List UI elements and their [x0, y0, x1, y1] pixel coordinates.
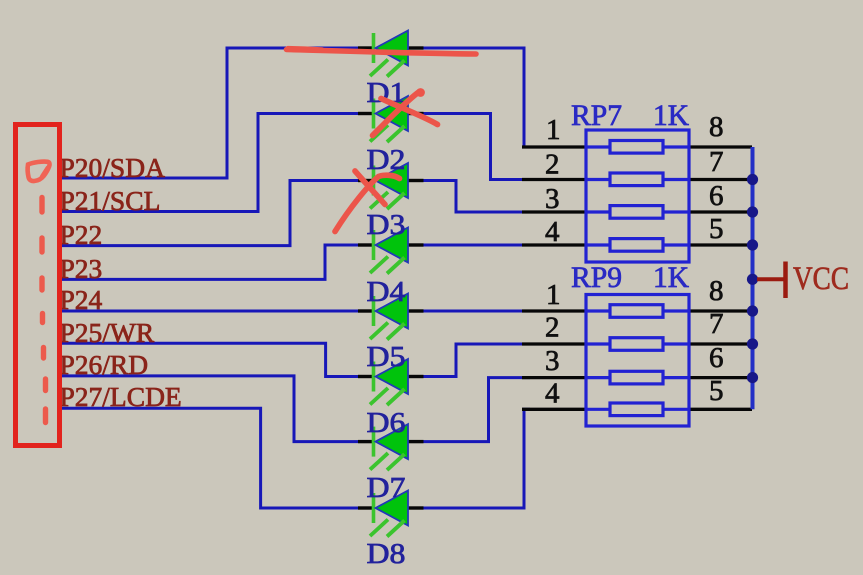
wire P25 to D6	[62, 343, 358, 376]
LED D8	[358, 491, 424, 537]
svg-text:P23: P23	[60, 253, 103, 284]
svg-text:5: 5	[709, 375, 724, 407]
annotation dash 1	[39, 198, 44, 213]
wire P27 to D8	[62, 408, 358, 508]
svg-text:D6: D6	[367, 407, 406, 439]
right VCC rail wire	[751, 147, 755, 409]
power symbol VCC	[757, 261, 849, 298]
wire P26 to D7	[62, 376, 358, 442]
RP9 pin stub wires black left	[522, 309, 586, 312]
svg-text:8: 8	[709, 111, 724, 143]
svg-text:6: 6	[709, 342, 724, 374]
LED D2	[358, 96, 424, 142]
svg-text:P20/SDA: P20/SDA	[60, 152, 166, 183]
RP7 pin stub wires black right	[689, 145, 752, 148]
wire D6 to RP9 pin2	[424, 344, 531, 377]
wire D5 to RP9 pin1	[424, 310, 531, 313]
svg-text:RP9: RP9	[571, 261, 622, 294]
wire D1 to RP7 pin1	[424, 48, 531, 147]
annotation dash 6	[43, 379, 48, 391]
svg-text:7: 7	[709, 146, 724, 178]
junction dot RP7 pin6	[747, 206, 758, 217]
wire P24 to D5	[62, 310, 358, 313]
annotation red rectangle frame	[16, 125, 60, 446]
junction dot RP7 pin5	[747, 239, 758, 250]
LED D6	[358, 359, 424, 405]
RP7 pin stub wires black left	[522, 147, 752, 409]
annotation dash 5	[41, 348, 46, 359]
svg-text:P22: P22	[60, 219, 103, 250]
junction dot RP9 pin6	[747, 372, 758, 383]
svg-text:1: 1	[546, 279, 561, 311]
svg-text:P21/SCL: P21/SCL	[60, 185, 161, 216]
wire P20 to D1	[62, 48, 358, 178]
wire D2 to RP7 pin2	[424, 114, 531, 180]
svg-text:8: 8	[709, 275, 724, 307]
svg-text:2: 2	[545, 312, 560, 344]
wire D7 to RP9 pin3	[424, 378, 531, 442]
annotation dash 3	[39, 278, 44, 290]
junction dot VCC node	[747, 274, 758, 285]
svg-text:1K: 1K	[653, 261, 689, 294]
annotation X over D2 LED	[335, 175, 400, 231]
svg-text:D7: D7	[367, 472, 406, 504]
annotation X over D1 LED	[373, 92, 420, 136]
annotation dash 4	[40, 314, 45, 323]
svg-text:7: 7	[709, 308, 724, 340]
svg-text:D3: D3	[367, 209, 406, 241]
svg-text:2: 2	[545, 149, 560, 181]
svg-text:4: 4	[545, 378, 560, 410]
wire D8 to RP9 pin4	[424, 409, 531, 508]
svg-text:6: 6	[709, 180, 724, 212]
svg-text:P24: P24	[60, 284, 103, 315]
RP9 pin stub wires black right	[689, 309, 752, 312]
annotation strike line over D1	[287, 50, 477, 55]
svg-text:3: 3	[545, 345, 560, 377]
wire P23 to D4	[62, 245, 358, 279]
svg-text:D8: D8	[367, 538, 406, 570]
LED D5	[358, 294, 424, 340]
svg-text:3: 3	[545, 183, 560, 215]
wire D3 to RP7 pin3	[424, 181, 531, 213]
svg-text:RP7: RP7	[571, 99, 622, 132]
svg-text:P25/WR: P25/WR	[60, 317, 155, 348]
annotation dash 7	[43, 409, 48, 423]
svg-text:D2: D2	[367, 144, 406, 176]
wire D4 to RP7 pin4	[424, 244, 531, 247]
svg-text:P26/RD: P26/RD	[60, 349, 149, 380]
wire P22 to D3	[62, 181, 358, 246]
svg-text:1K: 1K	[653, 99, 689, 132]
LED D7	[358, 424, 424, 470]
svg-text:1: 1	[546, 114, 561, 146]
svg-text:4: 4	[545, 216, 560, 248]
LED D4	[358, 228, 424, 274]
svg-text:P27/LCDE: P27/LCDE	[60, 381, 182, 412]
LED D1	[358, 31, 424, 77]
resistor pack RP9	[586, 295, 689, 427]
annotation dash 2	[39, 238, 44, 252]
svg-text:VCC: VCC	[793, 261, 849, 297]
resistor pack RP7	[586, 130, 689, 262]
annotation hand-drawn loop	[28, 162, 50, 181]
junction dot RP9 pin7	[747, 338, 758, 349]
svg-text:D5: D5	[367, 341, 406, 373]
svg-text:5: 5	[709, 213, 724, 245]
junction dot RP7 pin7	[747, 174, 758, 185]
junction dot RP9 pin8	[747, 305, 758, 316]
svg-text:D4: D4	[367, 276, 407, 308]
wire P21 to D2	[62, 114, 358, 212]
LED D3	[358, 163, 424, 209]
